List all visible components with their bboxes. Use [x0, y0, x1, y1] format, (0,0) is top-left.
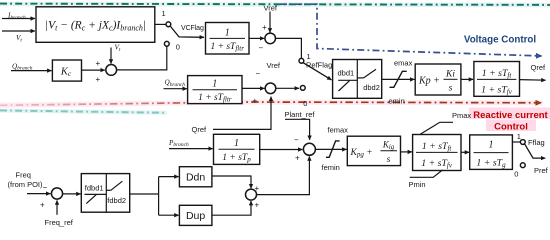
svg-text:Voltage Control: Voltage Control	[464, 35, 536, 46]
svg-text:1: 1	[517, 132, 521, 141]
wire block U1 output stub	[155, 23, 166, 25]
block F2 1/(1+sTfltr)	[188, 76, 242, 104]
svg-text:Kp +: Kp +	[418, 75, 440, 86]
summing junction S3	[265, 83, 276, 94]
svg-text:femin: femin	[322, 163, 340, 172]
block Tg 1/(1+sTg)	[470, 135, 513, 170]
switch RefFlag lever	[303, 63, 331, 80]
wire Tp output into sum S4	[260, 149, 303, 151]
wire Tg output stub	[512, 141, 520, 143]
teal border glow (top)	[0, 4, 550, 5]
svg-text:Reactive current: Reactive current	[473, 110, 548, 121]
svg-text:fdbd1: fdbd1	[85, 183, 104, 192]
svg-text:−: −	[294, 136, 299, 145]
svg-text:+: +	[255, 200, 260, 209]
wire PI2 to leadlag2	[401, 151, 413, 153]
teal border glow (bottom-left)	[0, 111, 167, 113]
wire S4 output through femax limiter	[315, 148, 346, 150]
wire Vref top input	[269, 12, 271, 33]
summing junction S5	[51, 188, 62, 199]
svg-text:dbd1: dbd1	[338, 69, 355, 78]
block F1 1/(1+sTfltr)	[206, 23, 250, 55]
svg-text:−: −	[256, 69, 261, 78]
block Tp 1/(1+sTp)	[214, 134, 260, 164]
wire PI to leadlag1	[461, 78, 473, 80]
svg-text:+: +	[253, 97, 258, 106]
wire Dup output into sum S6	[212, 201, 251, 215]
block leadlag2 (1+sTft)/(1+sTfv)	[413, 135, 461, 171]
switch RefFlag contact 0	[300, 86, 305, 91]
svg-text:0: 0	[303, 99, 307, 108]
svg-text:0: 0	[176, 43, 180, 52]
svg-text:Pmin: Pmin	[409, 180, 426, 189]
switch VCFlag lever	[170, 26, 204, 37]
svg-text:Qref: Qref	[192, 125, 208, 134]
switch VCFlag contact 0	[164, 41, 169, 46]
wire Freq into sum S5	[27, 193, 50, 195]
svg-text:Fflag: Fflag	[528, 138, 545, 147]
svg-text:s: s	[387, 155, 391, 165]
switch RefFlag contact 1	[299, 58, 304, 63]
wire Qbranch to Kc	[11, 70, 52, 72]
wire Vt input	[2, 30, 35, 32]
pink highlight behind Reactive current Control title	[469, 108, 550, 120]
svg-text:1: 1	[234, 138, 239, 149]
svg-text:Dup: Dup	[186, 210, 205, 222]
wire split vertical	[158, 177, 160, 216]
svg-text:Pref: Pref	[534, 166, 549, 175]
wire F2 output	[242, 87, 264, 89]
wire Qref output	[520, 79, 546, 82]
switch Fflag contact 0	[520, 163, 525, 168]
switch VCFlag contact 1	[166, 22, 171, 27]
svg-text:Vref: Vref	[267, 61, 281, 70]
wire dbd output through limiter	[382, 78, 415, 80]
block PI Kp+Ki/s	[415, 64, 461, 95]
wire VCFlag contact0 to Kc sum output	[117, 46, 167, 70]
wire Qbranch into F2	[164, 88, 187, 90]
wire S5 output into fdbd	[63, 193, 81, 195]
wire Ddn output into sum S6	[212, 176, 251, 188]
svg-text:+: +	[96, 75, 101, 84]
node Pmin annotation	[410, 170, 443, 177]
limiter femax/femin glyph	[326, 141, 340, 157]
svg-text:1 + sTp: 1 + sTp	[222, 153, 251, 164]
svg-text:Ddn: Ddn	[186, 172, 205, 184]
svg-text:+: +	[262, 23, 267, 32]
blue dash-dot border (Voltage Control region)	[280, 4, 542, 56]
svg-text:VCFlag: VCFlag	[181, 25, 204, 32]
wire S6 output into S4 bottom	[257, 156, 310, 194]
wire Vt into sum S2	[110, 48, 112, 64]
svg-text:fdbd2: fdbd2	[107, 196, 126, 205]
wire leadlag2 to Tg block	[461, 151, 469, 153]
red glow band	[0, 102, 543, 105]
block dbd deadband	[333, 60, 382, 99]
wire into Dup	[159, 214, 179, 216]
svg-text:Kc: Kc	[60, 66, 72, 78]
svg-text:Qref: Qref	[531, 63, 547, 72]
block U1 |Vt-(Rc+jXc)Ibranch|	[36, 7, 155, 43]
wire S1 output to RefFlag contact 1	[276, 38, 302, 58]
svg-text:Ki: Ki	[445, 69, 455, 79]
svg-text:Freq_ref: Freq_ref	[45, 218, 74, 227]
block fdbd deadband	[81, 174, 129, 213]
red dash-dot border (Reactive current control region)	[0, 102, 541, 105]
svg-text:−: −	[43, 183, 48, 192]
limiter emax/emin glyph	[390, 71, 407, 87]
svg-text:1 + sTfltr: 1 + sTfltr	[210, 42, 244, 53]
node Pmax annotation	[420, 122, 453, 134]
wire Pbranch into Tp block	[169, 148, 213, 150]
svg-text:Plant_ref: Plant_ref	[285, 110, 316, 119]
block Kc gain	[52, 60, 81, 81]
block Ddn	[179, 167, 212, 187]
svg-text:s: s	[449, 84, 453, 94]
block Dup	[179, 205, 212, 225]
wire S3 output to RefFlag contact 0	[276, 87, 299, 89]
svg-text:Freq: Freq	[16, 170, 31, 179]
svg-text:1 + sTfltr: 1 + sTfltr	[198, 93, 232, 104]
svg-text:1: 1	[212, 79, 217, 90]
switch Fflag contact 1	[520, 140, 525, 145]
wire Plant_ref into sum S4	[285, 119, 310, 140]
svg-text:1 + sTg: 1 + sTg	[476, 157, 506, 169]
summing junction S6	[246, 189, 257, 200]
svg-text:RefFlag: RefFlag	[306, 61, 332, 70]
svg-text:0: 0	[514, 170, 518, 179]
block PI2 Kpg+Kig/s	[347, 136, 400, 165]
switch Fflag lever and Pref arrow	[525, 144, 546, 158]
svg-text:−: −	[259, 44, 264, 53]
svg-text:1: 1	[225, 27, 230, 38]
svg-text:1: 1	[489, 140, 494, 151]
wire F1 output	[249, 37, 264, 39]
svg-text:Pmax: Pmax	[452, 111, 471, 120]
svg-text:Vref: Vref	[264, 4, 278, 13]
block leadlag1 (1+sTft)/(1+sTfv)	[474, 62, 520, 97]
wire fdbd output split	[130, 193, 159, 195]
summing junction S2	[106, 65, 117, 76]
svg-text:dbd2: dbd2	[363, 83, 380, 92]
summing junction S4	[303, 143, 315, 155]
wire Kc output	[82, 69, 105, 71]
wire into Ddn	[159, 176, 179, 178]
teal dash-dot border (bottom-left segment)	[0, 110, 167, 112]
svg-text:emin: emin	[389, 96, 405, 105]
wire Qref feedback into S3 bottom	[213, 97, 271, 130]
svg-text:+: +	[96, 59, 101, 68]
svg-text:emax: emax	[394, 58, 413, 67]
svg-text:Control: Control	[494, 121, 528, 132]
svg-text:Kpg +: Kpg +	[350, 148, 373, 159]
svg-text:1: 1	[162, 9, 166, 18]
svg-text:+: +	[295, 153, 300, 162]
svg-text:(from POI): (from POI)	[8, 180, 44, 189]
teal dash-dot border (top)	[0, 4, 550, 5]
svg-text:femax: femax	[328, 126, 349, 135]
summing junction S1	[265, 33, 276, 44]
wire Freq_ref into S5	[56, 200, 58, 214]
wire Ibranch input	[2, 18, 35, 20]
svg-text:+: +	[40, 200, 45, 209]
